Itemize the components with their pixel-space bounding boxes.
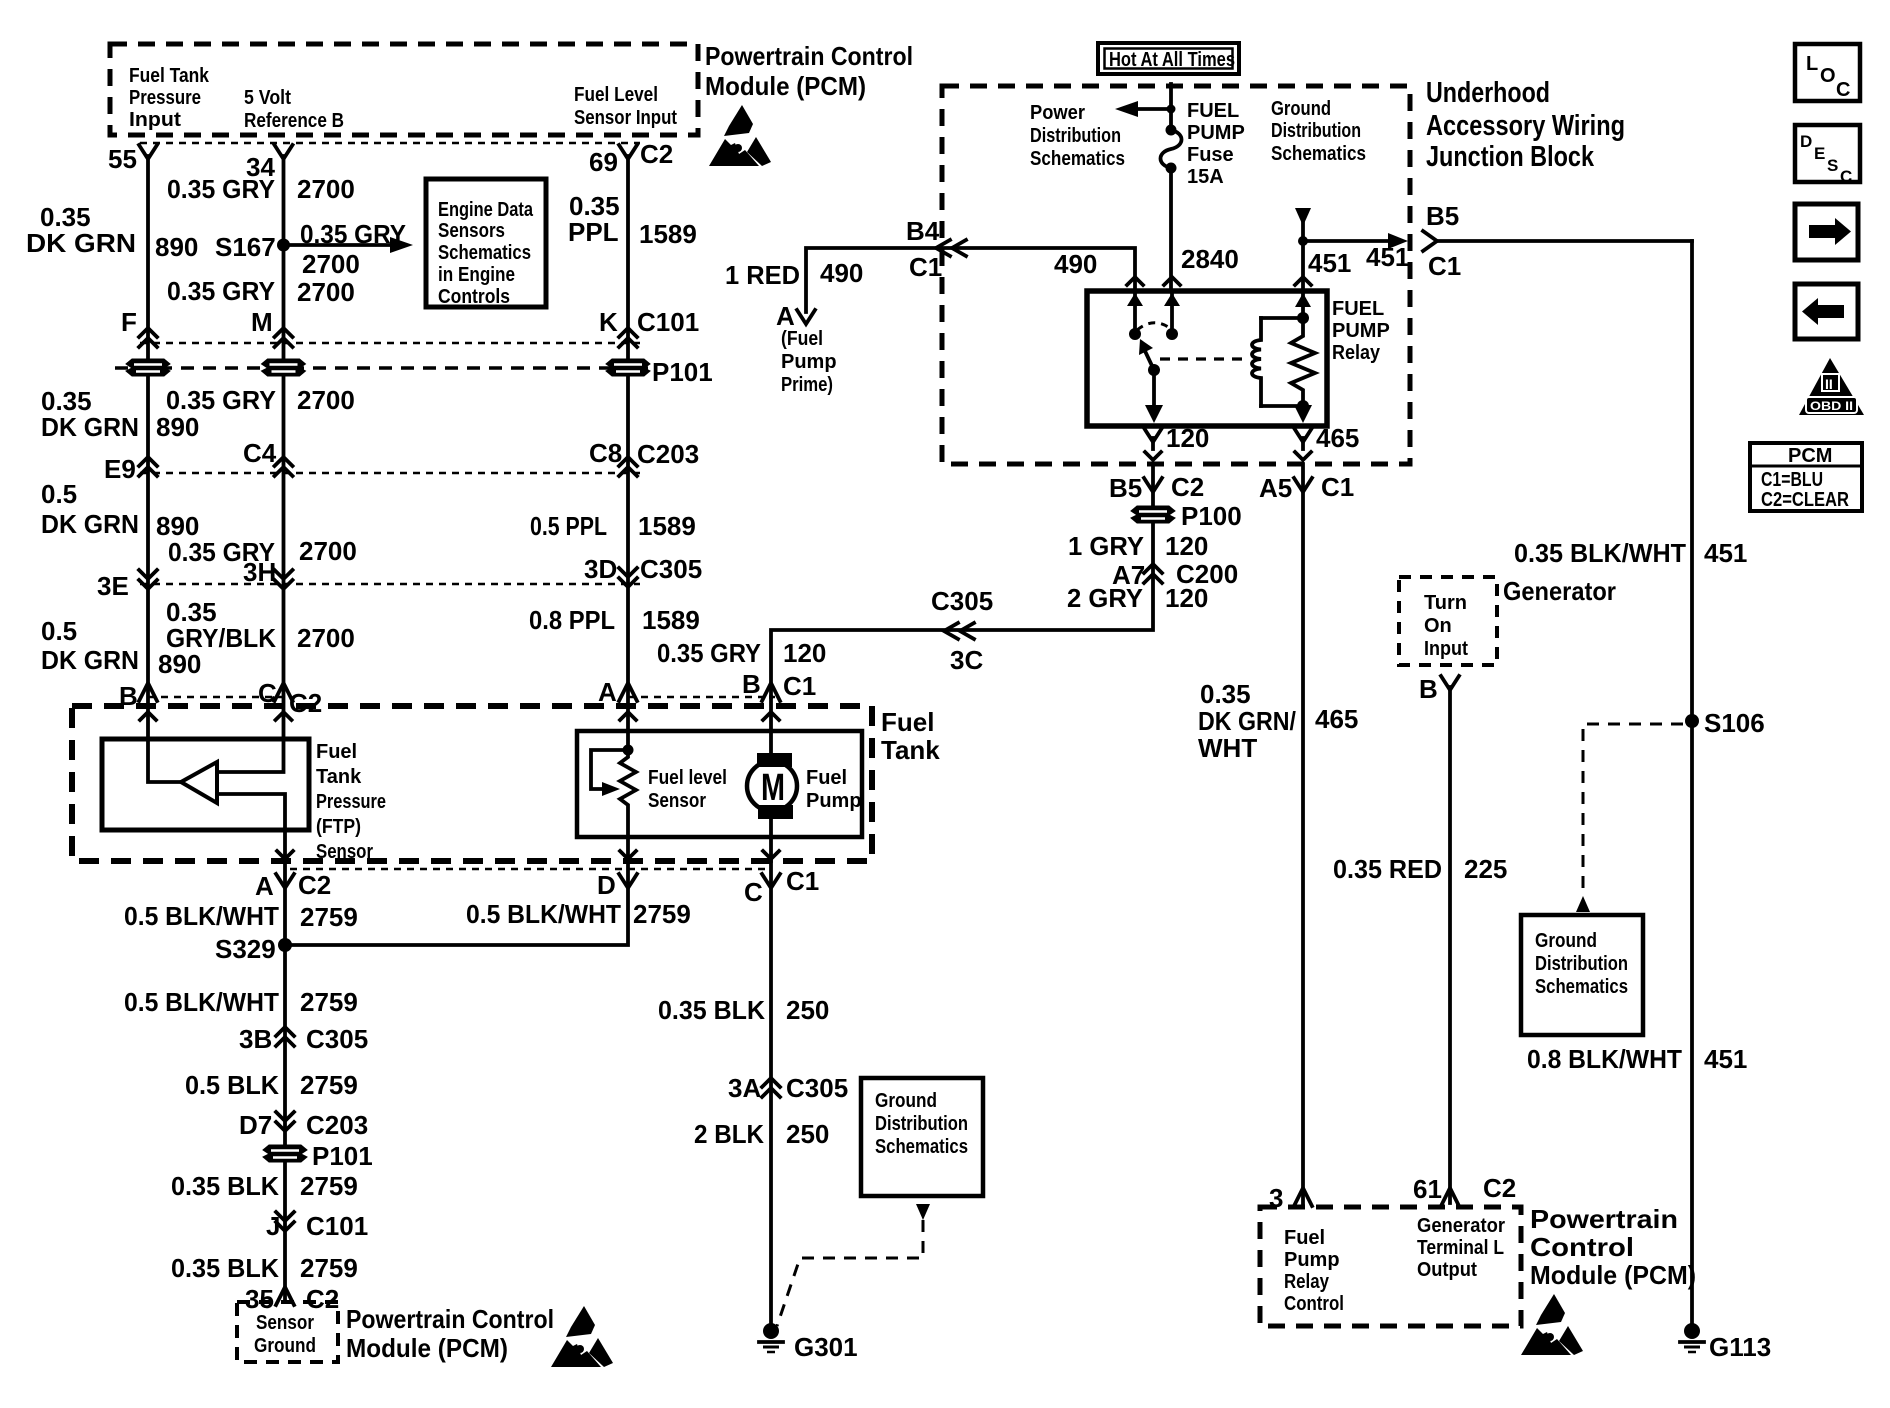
wire splice S329 down to sensor ground [283,945,287,1300]
svg-text:0.8 BLK/WHT: 0.8 BLK/WHT [1527,1044,1682,1074]
svg-text:Sensor: Sensor [648,790,706,812]
wire arrow out of tank pin A bottom [277,851,293,859]
pin B of C1 fuel tank top [742,669,816,701]
pin B5 of C1 junction block output [1426,201,1461,281]
svg-text:C4: C4 [243,438,277,468]
svg-text:120: 120 [1166,423,1209,453]
svg-text:Terminal L: Terminal L [1417,1237,1504,1259]
svg-text:Accessory Wiring: Accessory Wiring [1426,110,1625,142]
svg-text:B5: B5 [1426,201,1459,231]
label 5 Volt Reference B [244,87,344,132]
svg-text:Control: Control [1530,1232,1634,1262]
svg-text:C305: C305 [640,554,702,584]
svg-text:0.5: 0.5 [41,479,77,509]
label 0.35 BLK/WHT 451 [1514,538,1747,568]
label 0.5 DK GRN 890 row5 [41,479,199,541]
svg-text:B: B [742,669,761,699]
svg-text:D7: D7 [239,1110,272,1140]
svg-text:C101: C101 [306,1211,368,1241]
label FUEL PUMP Fuse 15A [1187,100,1245,188]
relay coil top and bottom ties [1261,312,1309,412]
label 1 GRY 120 [1068,531,1208,561]
svg-text:0.35 BLK: 0.35 BLK [658,995,765,1025]
wire from Hot At All Times into junction block [1169,84,1173,128]
svg-text:DK GRN: DK GRN [41,412,139,442]
svg-text:890: 890 [155,232,198,262]
wire 2840 fuse to relay [1171,168,1239,291]
svg-text:WHT: WHT [1198,733,1257,763]
wire 465 fuel pump relay control [1301,464,1305,1203]
relay switch blade [1139,339,1160,376]
svg-text:2759: 2759 [300,1253,358,1283]
ground G113 [1680,1323,1771,1362]
svg-text:465: 465 [1315,704,1358,734]
label Fuel Tank Pressure (FTP) Sensor [316,741,386,863]
svg-text:DK GRN: DK GRN [26,228,136,258]
pin J of connector C101 [266,1211,368,1241]
label 2 BLK 250 [694,1119,829,1149]
splice S106 [1685,708,1765,738]
svg-text:Power: Power [1030,102,1085,124]
svg-text:Ground: Ground [1535,930,1597,952]
svg-text:A: A [776,301,795,331]
FUEL PUMP Relay box [1087,291,1390,426]
svg-text:C2: C2 [298,870,331,900]
wire arrow into tank pin C [276,712,292,720]
svg-text:Pump: Pump [806,790,862,812]
svg-text:PUMP: PUMP [1332,320,1390,342]
svg-text:Pump: Pump [781,351,837,373]
fuel level sensor wiper loop [591,750,628,796]
connector C305 3C half connector on 120 wire [931,586,993,675]
label 0.5 BLK/WHT 2759 below pin A [124,901,358,932]
svg-text:S106: S106 [1704,708,1765,738]
label 1 RED 490 [725,258,863,290]
label Fuel Level Sensor Input [574,84,677,129]
svg-text:0.35 BLK: 0.35 BLK [171,1171,279,1201]
svg-text:0.35 BLK: 0.35 BLK [171,1253,279,1283]
svg-text:490: 490 [820,258,863,288]
svg-text:D: D [597,870,616,900]
svg-text:Module (PCM): Module (PCM) [346,1333,508,1363]
svg-text:2700: 2700 [297,623,355,653]
grommet P101 lower [263,1141,373,1171]
pin 35 of connector C2 [245,1284,339,1314]
svg-text:2700: 2700 [297,277,355,307]
connector C203 dashed line [140,472,640,474]
wire 225 generator terminal L [1448,687,1452,1203]
svg-text:0.35 GRY: 0.35 GRY [657,638,761,668]
fuel level sensor resistor [620,750,636,837]
svg-text:C2=CLEAR: C2=CLEAR [1761,489,1849,511]
svg-text:0.5: 0.5 [41,616,77,646]
svg-text:On: On [1424,615,1452,637]
pin C8 of connector C203 [589,438,699,476]
svg-text:2700: 2700 [297,385,355,415]
svg-text:C101: C101 [637,307,699,337]
svg-text:15A: 15A [1187,166,1224,188]
pin A5 of C1 below junction block [1259,472,1354,503]
label Ground Distribution Schematics (junction block) [1271,98,1366,165]
title Underhood Accessory Wiring Junction Block [1426,77,1625,173]
svg-text:Powertrain Control: Powertrain Control [346,1304,554,1334]
svg-text:Sensors: Sensors [438,220,505,242]
svg-text:Powertrain Control: Powertrain Control [705,41,913,71]
svg-text:C: C [1840,167,1852,186]
label 490 inside junction block [1054,249,1097,279]
svg-text:Prime): Prime) [781,374,833,396]
wire 451 right side down to G113 [1690,241,1694,1322]
svg-text:D: D [1800,132,1812,151]
svg-text:C1=BLU: C1=BLU [1761,469,1823,491]
svg-text:3A: 3A [728,1073,761,1103]
wire 451 from top triangle [1295,208,1311,291]
label 0.35 GRY 2700 row3 [166,385,355,415]
wire arrow out of tank pin D [620,851,636,859]
svg-text:(FTP): (FTP) [316,816,361,838]
svg-text:C1: C1 [1321,472,1354,502]
svg-text:Fuse: Fuse [1187,144,1234,166]
label 0.35 GRY 2700 row6 [168,536,357,567]
svg-text:2700: 2700 [299,536,357,566]
svg-text:Relay: Relay [1332,342,1381,364]
PCM connector legend box [1750,443,1862,511]
svg-text:C2: C2 [1483,1173,1516,1203]
svg-text:S167: S167 [215,232,276,262]
svg-text:2 BLK: 2 BLK [694,1119,764,1149]
grommet P101 dashed line [115,366,648,370]
title Powertrain Control Module (PCM) bottom right [1530,1204,1696,1290]
label 0.35 PPL 1589 row1 [568,191,697,249]
svg-text:Module (PCM): Module (PCM) [1530,1260,1696,1290]
svg-text:Tank: Tank [881,735,940,765]
svg-text:3E: 3E [97,571,129,601]
relay output pin 465 [1294,423,1359,460]
svg-text:120: 120 [783,638,826,668]
svg-text:Input: Input [1424,638,1468,660]
svg-text:451: 451 [1704,1044,1747,1074]
svg-text:C2: C2 [306,1284,339,1314]
svg-text:Sensor Input: Sensor Input [574,107,677,129]
svg-text:C1: C1 [1428,251,1461,281]
label 0.5 BLK/WHT 2759 row [124,987,358,1017]
connector dashed line below fuel tank [290,868,770,870]
svg-text:PUMP: PUMP [1187,122,1245,144]
svg-text:0.5 BLK/WHT: 0.5 BLK/WHT [466,899,621,929]
pin C of C2 fuel tank top [258,678,322,718]
svg-text:Distribution: Distribution [1535,953,1628,975]
svg-text:0.35: 0.35 [1200,679,1251,709]
svg-text:C305: C305 [786,1073,848,1103]
svg-text:890: 890 [158,649,201,679]
svg-text:Hot At All Times: Hot At All Times [1109,49,1235,71]
connector B4 C1 half connectors [906,216,966,282]
svg-text:M: M [761,767,785,809]
svg-text:69: 69 [589,147,618,177]
svg-text:E9: E9 [104,454,136,484]
Ground Distribution Schematics box left [861,1078,983,1196]
connector C2 dashed line top [140,142,640,144]
wire 490 fuel pump prime to relay [806,248,1135,312]
relay coil drive dashed link [1160,357,1248,360]
dashed reference line from Ground Distribution box to G301 [777,1204,930,1326]
relay output pin 120 [1144,423,1209,460]
svg-text:1 RED: 1 RED [725,260,800,290]
Engine Data Sensors Schematics box [426,179,546,308]
fuel pump motor M [747,753,797,819]
svg-text:Pressure: Pressure [129,87,201,109]
svg-text:P101: P101 [312,1141,373,1171]
pin 34 connector symbol [246,145,293,182]
svg-text:Fuel Tank: Fuel Tank [129,65,210,87]
svg-text:2700: 2700 [297,174,355,204]
pin A fuel pump prime [776,301,815,331]
svg-text:O: O [1820,65,1836,87]
svg-text:E: E [1814,144,1825,163]
pin B generator [1419,674,1459,704]
ground G301 [759,1323,858,1362]
icon DESC box [1795,125,1860,186]
svg-text:55: 55 [108,144,137,174]
svg-text:Underhood: Underhood [1426,77,1550,109]
label 0.5 BLK/WHT 2759 below pin D [466,899,691,929]
splice S329 [215,934,292,964]
PCM bottom right dashed box [1260,1207,1521,1326]
svg-text:2759: 2759 [300,1070,358,1100]
relay coil suppression resistor [1291,293,1315,406]
wire pin D down to splice [285,837,628,945]
svg-text:in Engine: in Engine [438,264,515,286]
svg-text:Controls: Controls [438,286,510,308]
svg-text:225: 225 [1464,854,1507,884]
svg-text:2840: 2840 [1181,244,1239,274]
pin 3A of connector C305 [728,1073,848,1103]
svg-text:250: 250 [786,995,829,1025]
svg-text:A5: A5 [1259,473,1292,503]
Underhood Accessory Wiring Junction Block dashed box [942,86,1410,464]
svg-text:Powertrain: Powertrain [1530,1204,1678,1234]
label 0.5 BLK 2759 [185,1070,358,1100]
svg-text:61: 61 [1413,1174,1442,1204]
label 0.5 DK GRN 890 row7 [41,616,201,679]
svg-text:G301: G301 [794,1332,858,1362]
ESD symbol bottom left [551,1306,613,1367]
svg-text:0.35 BLK/WHT: 0.35 BLK/WHT [1514,538,1686,568]
relay switch fixed contacts [1127,293,1180,340]
svg-text:Pressure: Pressure [316,791,386,813]
svg-text:5 Volt: 5 Volt [244,87,291,109]
svg-text:Distribution: Distribution [1271,120,1361,142]
PCM top dashed box (Powertrain Control Module) [110,44,698,135]
pin 3H [243,557,293,589]
svg-text:B: B [1419,674,1438,704]
grommet P100 [1131,501,1242,531]
svg-text:B5: B5 [1109,473,1142,503]
svg-text:0.5 BLK: 0.5 BLK [185,1070,279,1100]
svg-text:F: F [121,307,137,337]
svg-text:FUEL: FUEL [1332,298,1384,320]
svg-text:Sensor: Sensor [256,1312,314,1334]
label 0.35 DK GRN/ WHT 465 [1198,679,1358,763]
svg-text:C305: C305 [931,586,993,616]
title Powertrain Control Module (PCM) bottom left [346,1304,554,1363]
label 0.35 DK GRN 890 row1 [26,202,198,262]
pin 61 of C2 PCM bottom [1413,1173,1516,1206]
wire arrow out of tank pin C [763,851,779,859]
label 0.35 BLK 2759 [171,1171,358,1201]
svg-text:3C: 3C [950,645,983,675]
svg-text:Distribution: Distribution [875,1113,968,1135]
label 0.8 BLK/WHT 451 [1527,1044,1747,1074]
svg-text:0.35 GRY: 0.35 GRY [166,385,276,415]
pin D below tank [597,870,637,900]
label 451 451 near B5 [1308,242,1409,278]
svg-text:Fuel: Fuel [1284,1227,1325,1249]
svg-text:Fuel: Fuel [806,767,847,789]
pin M of C101 [251,307,293,347]
icon back arrow box [1795,284,1858,339]
svg-text:1589: 1589 [642,605,700,635]
label 2 GRY 120 [1067,583,1208,613]
svg-text:DK GRN/: DK GRN/ [1198,706,1296,736]
grommet P101 on wire 2700 [262,359,306,376]
pin C4 [243,438,293,476]
svg-text:2700: 2700 [302,249,360,279]
label Power Distribution Schematics [1030,102,1125,170]
label Fuel level Sensor [648,767,727,812]
svg-text:0.5 PPL: 0.5 PPL [530,511,607,541]
ESD symbol bottom right [1521,1294,1583,1355]
pin A fuel tank top [598,677,637,707]
svg-text:3D: 3D [584,554,617,584]
svg-text:Turn: Turn [1424,592,1467,614]
svg-text:PPL: PPL [568,217,619,247]
icon next arrow box [1795,204,1858,260]
arrow S167 to Engine Data Sensors box [284,219,414,279]
svg-text:Fuel: Fuel [316,741,357,763]
pin K of connector C101 [599,307,699,347]
pin D7 of connector C203 [239,1110,368,1140]
svg-text:451: 451 [1308,248,1351,278]
label 0.8 PPL 1589 row8 [529,605,700,635]
svg-text:PCM: PCM [1788,445,1832,467]
svg-text:2 GRY: 2 GRY [1067,583,1143,613]
label 0.35 GRY 120 on tank feed [657,638,826,668]
svg-text:250: 250 [786,1119,829,1149]
label 0.35 RED 225 [1333,854,1507,884]
fuel level sensor junction dot [623,745,634,756]
svg-text:2759: 2759 [633,899,691,929]
label Fuel Pump Relay Control [1284,1227,1344,1315]
svg-text:Pump: Pump [1284,1249,1340,1271]
svg-text:Input: Input [129,109,181,131]
label 0.35 GRY 2700 row2 [167,276,355,307]
svg-text:L: L [1806,53,1818,75]
svg-text:Junction Block: Junction Block [1426,141,1595,173]
wire arrow into tank pin B C1 [763,712,779,720]
svg-text:0.35 RED: 0.35 RED [1333,854,1442,884]
svg-text:0.8 PPL: 0.8 PPL [529,605,615,635]
label 0.35 GRY/BLK 2700 row8 [166,597,355,653]
connector C305 dashed line [140,583,640,585]
svg-text:C203: C203 [306,1110,368,1140]
svg-text:C2: C2 [640,139,673,169]
label Generator [1503,576,1616,606]
wire arrow into tank pin A [620,712,636,720]
pin 3 PCM bottom [1269,1183,1312,1213]
svg-text:0.5 BLK/WHT: 0.5 BLK/WHT [124,901,279,931]
arrows into relay [1127,277,1311,285]
wire 1589 PPL (pin 69 down to fuel level sensor) [626,156,630,748]
pin A7 of connector C200 [1112,559,1238,590]
svg-text:Ground: Ground [875,1090,937,1112]
label Fuel Pump [806,767,862,812]
svg-text:Generator: Generator [1503,576,1616,606]
svg-text:0.35 GRY: 0.35 GRY [167,276,275,306]
svg-text:(Fuel: (Fuel [781,328,823,350]
pin A of C2 below tank [255,870,331,901]
svg-text:Fuel Level: Fuel Level [574,84,658,106]
svg-text:3B: 3B [239,1024,272,1054]
label 0.35 GRY 2700 row1 [167,174,355,204]
relay coil output arrow [1294,405,1312,423]
svg-text:C8: C8 [589,438,622,468]
pin 69 connector symbol, connector C2 [589,139,673,177]
svg-text:C305: C305 [306,1024,368,1054]
splice S167 [215,232,290,262]
svg-text:0.5 BLK/WHT: 0.5 BLK/WHT [124,987,279,1017]
svg-text:C1: C1 [786,866,819,896]
svg-text:Output: Output [1417,1259,1477,1281]
svg-text:Sensor: Sensor [316,841,373,863]
arrow to Power Distribution Schematics [1115,101,1176,117]
svg-text:Distribution: Distribution [1030,125,1121,147]
svg-text:1 GRY: 1 GRY [1068,531,1144,561]
svg-text:S: S [1827,156,1838,175]
label Generator Terminal L Output [1417,1215,1505,1281]
label 0.35 DK GRN 890 row3 [41,386,199,442]
pin B5 of C2 below junction block [1109,472,1204,503]
svg-text:Reference B: Reference B [244,110,344,132]
svg-text:P101: P101 [652,357,713,387]
svg-text:3H: 3H [243,557,276,587]
pin 3B of connector C305 [239,1024,368,1054]
title Powertrain Control Module (PCM) top [705,41,913,101]
svg-text:0.35 GRY: 0.35 GRY [300,219,406,249]
svg-text:0.35 GRY: 0.35 GRY [167,174,275,204]
svg-text:DK GRN: DK GRN [41,645,139,675]
wire fuel pump feed inside tank [769,697,773,861]
dashed reference from S106 to Ground Distribution box [1576,724,1683,912]
wire 890 DK GRN (pin 55 to FTP sensor) [148,156,181,782]
grommet P101 on wire 890 [126,359,170,376]
pin F of C101 [121,307,157,347]
svg-text:2759: 2759 [300,902,358,932]
svg-text:C: C [744,877,763,907]
wire arrow into tank pin B [140,712,156,720]
grommet P101 on wire 1589 [606,357,713,387]
svg-text:1589: 1589 [639,219,697,249]
wire fuel pump ground (pin C to G301) [769,861,773,1322]
svg-text:Generator: Generator [1417,1215,1505,1237]
Fuel Tank Pressure FTP Sensor box [102,739,309,830]
svg-text:G113: G113 [1709,1332,1771,1362]
svg-text:890: 890 [156,412,199,442]
relay coil [1252,318,1261,406]
svg-text:S329: S329 [215,934,276,964]
wire 451 to B5 connector [1303,231,1692,251]
connector C101 dashed line [140,342,640,344]
